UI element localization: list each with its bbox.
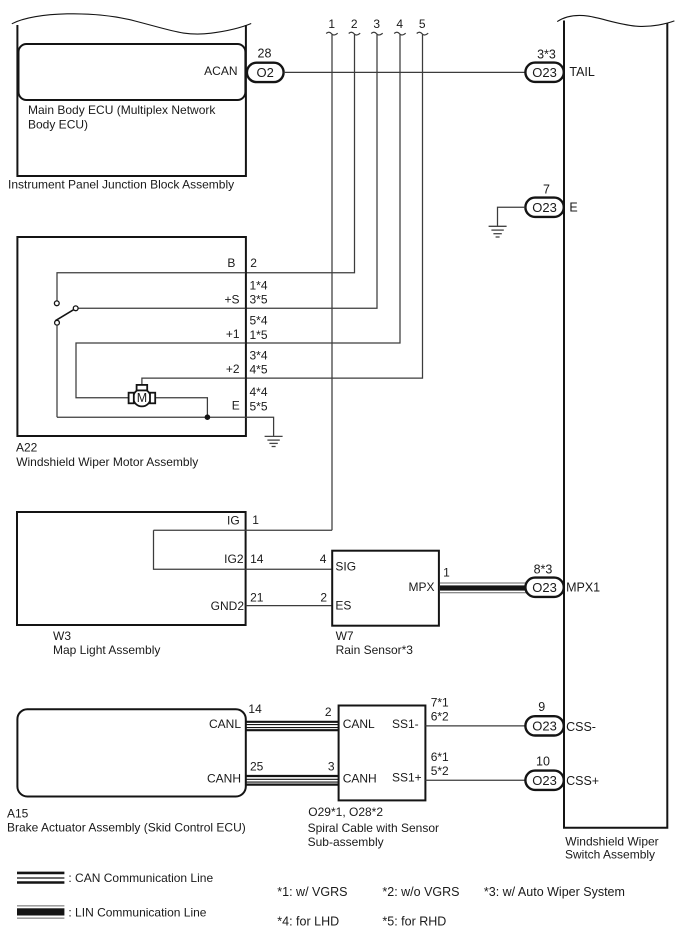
svg-text:W7: W7 xyxy=(336,629,354,643)
wiper switch assembly box xyxy=(557,15,674,827)
wire +2 row xyxy=(142,378,246,385)
wire 2 vertical xyxy=(245,32,360,273)
connector O23 CSS- xyxy=(525,716,563,735)
svg-text:GND2: GND2 xyxy=(211,599,245,613)
svg-text:4*4: 4*4 xyxy=(250,385,268,399)
svg-text:CANH: CANH xyxy=(207,771,241,785)
junction block J/B outer box (Instrument Panel Junction Block Assembly) xyxy=(12,14,251,176)
svg-text:O2: O2 xyxy=(257,65,274,80)
svg-text:SIG: SIG xyxy=(335,559,356,573)
LIN wire MPX to MPX1 xyxy=(440,583,526,593)
svg-text:4: 4 xyxy=(320,552,327,566)
svg-text:1*5: 1*5 xyxy=(250,328,268,342)
svg-text:6*1: 6*1 xyxy=(431,750,449,764)
wire motor to E row xyxy=(155,398,207,418)
wire +1 row xyxy=(76,343,245,398)
svg-text:3*5: 3*5 xyxy=(250,293,268,307)
svg-text:ES: ES xyxy=(335,599,351,613)
svg-text:SS1+: SS1+ xyxy=(392,770,422,784)
svg-text:2: 2 xyxy=(320,590,327,604)
svg-text:1: 1 xyxy=(328,17,335,31)
map light W3 box xyxy=(17,512,246,625)
svg-text:5: 5 xyxy=(419,17,426,31)
svg-text:O23: O23 xyxy=(532,200,557,215)
wiper motor assembly A22 box xyxy=(17,237,246,436)
wire 4 vertical xyxy=(245,32,405,343)
wire 3 vertical xyxy=(245,32,382,308)
svg-text:*5: for RHD: *5: for RHD xyxy=(382,914,446,928)
svg-text:+S: +S xyxy=(224,293,239,307)
svg-text:IG2: IG2 xyxy=(224,552,244,566)
svg-text:MPX: MPX xyxy=(408,580,434,594)
svg-text:O29*1, O28*2: O29*1, O28*2 xyxy=(308,805,383,819)
svg-text:A22: A22 xyxy=(16,441,38,455)
svg-text:14: 14 xyxy=(248,702,262,716)
svg-text:Windshield Wiper: Windshield Wiper xyxy=(565,835,658,849)
svg-text:Switch Assembly: Switch Assembly xyxy=(565,848,655,862)
svg-text:Body ECU): Body ECU) xyxy=(28,117,88,131)
svg-text:Rain Sensor*3: Rain Sensor*3 xyxy=(336,643,414,657)
junction dot xyxy=(205,414,211,420)
wire SS1- to CSS- xyxy=(425,725,526,727)
wire E row xyxy=(57,417,274,436)
svg-text:7: 7 xyxy=(543,182,550,196)
wire 5 vertical xyxy=(245,32,428,378)
svg-text:*1: w/ VGRS: *1: w/ VGRS xyxy=(277,885,347,899)
svg-text:O23: O23 xyxy=(532,719,557,734)
wire IG2 to SIG xyxy=(246,568,332,570)
svg-text:9: 9 xyxy=(538,700,545,714)
svg-text:5*2: 5*2 xyxy=(431,764,449,778)
svg-text:Spiral Cable with Sensor: Spiral Cable with Sensor xyxy=(308,821,439,835)
wire O2 to TAIL xyxy=(284,71,527,73)
svg-text:O23: O23 xyxy=(532,773,557,788)
wire E to ground xyxy=(498,207,526,226)
svg-text:: LIN Communication Line: : LIN Communication Line xyxy=(68,905,206,919)
svg-text:Sub-assembly: Sub-assembly xyxy=(308,835,384,849)
wire SS1+ to CSS+ xyxy=(425,779,526,781)
wire B row xyxy=(57,273,245,301)
connector O2 xyxy=(247,63,284,82)
svg-text:O23: O23 xyxy=(532,580,557,595)
svg-text:Main Body ECU (Multiplex Netwo: Main Body ECU (Multiplex Network xyxy=(28,103,216,117)
svg-text:CSS+: CSS+ xyxy=(566,774,599,788)
svg-text:5*5: 5*5 xyxy=(250,399,268,413)
wire GND2 to ES xyxy=(246,605,332,607)
svg-text:25: 25 xyxy=(250,759,264,773)
legend LIN symbol xyxy=(17,906,64,918)
rain sensor W7 box xyxy=(332,551,439,626)
legend CAN symbol xyxy=(17,873,64,883)
switch S1 xyxy=(54,301,78,325)
svg-text:: CAN Communication Line: : CAN Communication Line xyxy=(68,871,213,885)
wire IG-IG2 internal xyxy=(154,530,246,569)
svg-text:3: 3 xyxy=(373,17,380,31)
svg-text:TAIL: TAIL xyxy=(569,65,595,79)
svg-text:4: 4 xyxy=(396,17,403,31)
CAN wire CANH xyxy=(246,776,338,785)
svg-text:CANH: CANH xyxy=(343,771,377,785)
svg-text:E: E xyxy=(569,201,577,215)
svg-text:1*4: 1*4 xyxy=(250,278,268,292)
svg-text:3*4: 3*4 xyxy=(250,348,268,362)
svg-text:*2: w/o VGRS: *2: w/o VGRS xyxy=(382,885,459,899)
svg-text:7*1: 7*1 xyxy=(431,695,449,709)
svg-text:1: 1 xyxy=(252,513,259,527)
svg-text:SS1-: SS1- xyxy=(392,717,419,731)
svg-text:A15: A15 xyxy=(7,806,29,820)
ECU U1 inner box (Main Body ECU) xyxy=(19,44,246,100)
svg-text:2: 2 xyxy=(351,17,358,31)
svg-text:2: 2 xyxy=(325,705,332,719)
svg-text:*3: w/ Auto Wiper System: *3: w/ Auto Wiper System xyxy=(484,885,625,899)
connector O23 CSS+ xyxy=(525,771,563,790)
svg-text:Brake Actuator Assembly (Skid: Brake Actuator Assembly (Skid Control EC… xyxy=(7,821,246,835)
svg-text:21: 21 xyxy=(250,590,264,604)
svg-text:+1: +1 xyxy=(226,327,240,341)
spiral cable box xyxy=(339,706,426,801)
svg-text:Map Light Assembly: Map Light Assembly xyxy=(53,643,160,657)
svg-text:5*4: 5*4 xyxy=(250,313,268,327)
svg-text:M: M xyxy=(137,391,147,405)
svg-text:6*2: 6*2 xyxy=(431,710,449,724)
svg-text:10: 10 xyxy=(536,755,550,769)
svg-text:E: E xyxy=(232,399,240,413)
svg-text:14: 14 xyxy=(250,552,264,566)
svg-text:2: 2 xyxy=(250,256,257,270)
svg-text:B: B xyxy=(227,256,235,270)
ground (A22) xyxy=(265,436,283,446)
connector O23 E xyxy=(525,198,563,217)
svg-text:MPX1: MPX1 xyxy=(566,581,600,595)
svg-text:IG: IG xyxy=(227,514,240,528)
svg-text:W3: W3 xyxy=(53,629,71,643)
wire 1 vertical xyxy=(326,32,338,530)
svg-text:CSS-: CSS- xyxy=(566,720,596,734)
svg-text:1: 1 xyxy=(443,565,450,579)
svg-text:O23: O23 xyxy=(532,65,557,80)
wire +S row xyxy=(78,307,245,309)
connector O23 TAIL xyxy=(525,63,563,82)
svg-text:*4: for LHD: *4: for LHD xyxy=(277,914,339,928)
svg-text:+2: +2 xyxy=(226,362,240,376)
svg-text:4*5: 4*5 xyxy=(250,363,268,377)
svg-text:28: 28 xyxy=(258,47,272,61)
svg-text:3: 3 xyxy=(328,759,335,773)
svg-text:ACAN: ACAN xyxy=(204,64,237,78)
CAN wire CANL xyxy=(246,722,338,730)
motor M1 xyxy=(129,385,156,407)
wire IG row to line 1 xyxy=(154,529,333,531)
connector O23 MPX1 xyxy=(525,578,563,597)
ground (E connector) xyxy=(489,226,507,237)
svg-text:3*3: 3*3 xyxy=(537,48,556,62)
svg-text:Instrument Panel Junction Bloc: Instrument Panel Junction Block Assembly xyxy=(8,178,234,192)
svg-text:CANL: CANL xyxy=(209,717,241,731)
svg-text:8*3: 8*3 xyxy=(534,562,553,576)
wire switch to E row xyxy=(56,325,58,417)
svg-text:CANL: CANL xyxy=(343,717,375,731)
brake actuator A15 box xyxy=(17,709,245,796)
svg-text:Windshield Wiper Motor Assembl: Windshield Wiper Motor Assembly xyxy=(16,455,198,469)
